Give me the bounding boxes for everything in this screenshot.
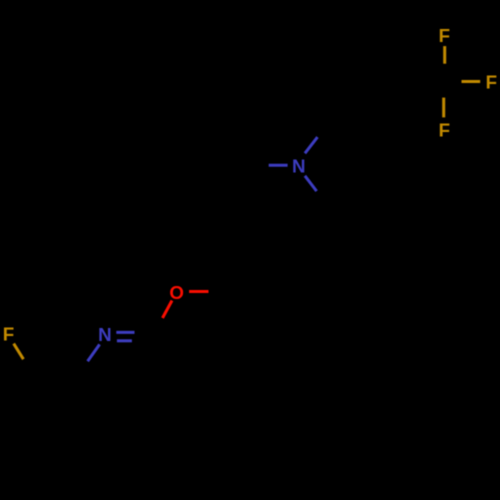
svg-text:F: F	[439, 120, 450, 141]
svg-text:F: F	[3, 324, 14, 345]
svg-text:N: N	[292, 156, 306, 177]
svg-text:F: F	[486, 71, 497, 92]
svg-text:F: F	[439, 25, 450, 46]
svg-text:O: O	[169, 282, 184, 303]
svg-text:N: N	[98, 324, 112, 345]
